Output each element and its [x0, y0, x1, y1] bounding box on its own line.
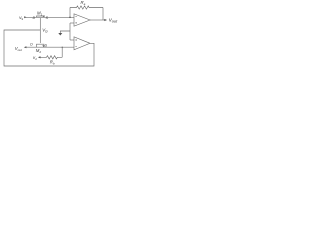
op-amp U2 [74, 37, 90, 50]
resistor Rb [40, 56, 62, 59]
resistor Ra [70, 6, 103, 9]
arrowhead vs input [24, 16, 27, 18]
svg-text:vout: vout [109, 18, 118, 24]
arrowhead M2 source [42, 45, 45, 47]
wire: gate vertical VG [39, 18, 41, 43]
op-amp U1 minus mark [75, 16, 76, 18]
node: Rb junction [62, 47, 63, 48]
wire: U2 top input stub [70, 39, 74, 41]
op-amp U2 minus mark [75, 45, 76, 47]
wire: U1 noninverting stub [70, 22, 74, 24]
wire: bottom wire Vout label to M2 to U2 input [26, 46, 74, 48]
node: feedback junction [69, 17, 71, 19]
wire: Rb right leg up to bottom wire [61, 47, 63, 57]
transistor M1 [37, 16, 45, 17]
wire: U2 output and feedback loop to gate [4, 30, 94, 66]
op-amp U2 plus mark [75, 39, 76, 40]
ground symbol [58, 33, 62, 36]
wire: ground vertical between op-amps [69, 23, 71, 40]
wire: U1 output to vout [90, 19, 105, 21]
arrowhead v1 label [38, 56, 41, 58]
wire: ground tap [60, 31, 70, 33]
wire: main top wire vs to A1 input [26, 16, 74, 18]
wire: Ra right leg down to output [102, 8, 104, 21]
op-amp U1 plus mark [75, 22, 76, 23]
arrowhead M1 source [42, 16, 45, 18]
arrowhead Vout bottom label [24, 46, 27, 48]
op-amp U1 [74, 14, 90, 26]
wire: feedback tap up from main wire [69, 8, 71, 18]
arrowhead vout output [104, 19, 107, 21]
transistor M2 [37, 44, 45, 47]
